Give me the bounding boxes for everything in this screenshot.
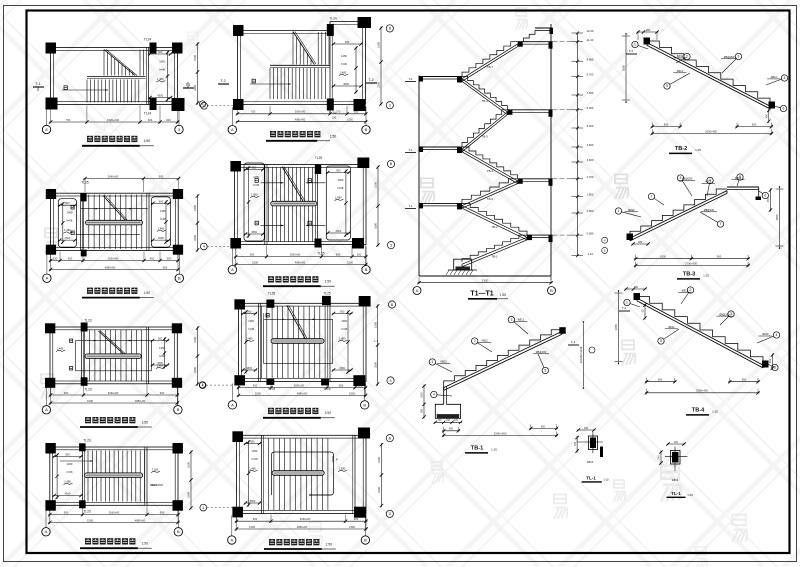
svg-text:B: B: [177, 407, 180, 412]
svg-text:900: 900: [345, 40, 350, 44]
svg-text:11.10: 11.10: [587, 38, 594, 42]
beam section detail 1: [574, 427, 603, 464]
svg-text:1: 1: [431, 360, 433, 364]
svg-text:1450: 1450: [67, 211, 73, 215]
svg-text:1500: 1500: [249, 525, 255, 529]
svg-text:1.800: 1.800: [587, 193, 594, 197]
detail TB-3 rebar callouts: [615, 174, 768, 227]
svg-text:1:50: 1:50: [141, 420, 148, 424]
plan 3 rail capsule: [85, 354, 141, 359]
svg-text:4500: 4500: [339, 366, 345, 370]
plan 5 walls: [238, 22, 366, 105]
svg-text:TB-7: TB-7: [487, 65, 494, 69]
svg-text:900: 900: [664, 123, 669, 127]
svg-text:4500: 4500: [250, 499, 256, 503]
svg-text:150: 150: [332, 116, 337, 120]
section floor slab level 3: [518, 179, 553, 186]
plan 2 stair treads: [84, 195, 142, 250]
svg-text:8Ø12: 8Ø12: [677, 54, 684, 58]
detail TB-4 label: [686, 408, 718, 415]
svg-text:TL25: TL25: [317, 252, 324, 256]
svg-text:900: 900: [658, 378, 663, 382]
svg-text:4: 4: [203, 104, 205, 108]
section title T1-T1: [468, 291, 508, 299]
plan 7 rail capsule: [271, 339, 324, 344]
detail TB-2 extra: [626, 28, 775, 123]
svg-text:900: 900: [250, 439, 255, 443]
svg-text:1:25: 1:25: [703, 274, 709, 278]
section flight 1: [462, 42, 518, 82]
svg-text:TL25: TL25: [268, 387, 275, 391]
plan 8 extra marks: [200, 435, 393, 518]
plan 3 columns: [45, 323, 182, 388]
plan 6 caption: [263, 276, 335, 286]
svg-text:1:50: 1:50: [324, 411, 331, 415]
svg-text:5.400: 5.400: [587, 124, 594, 128]
detail TB-3 height dimension: [775, 186, 784, 248]
svg-text:1.480: 1.480: [246, 336, 253, 340]
plan 2 columns: [46, 189, 183, 256]
svg-text:5: 5: [544, 369, 546, 373]
svg-text:3300+450: 3300+450: [696, 389, 709, 393]
plan 6 walls: [235, 165, 367, 245]
svg-text:h=08: h=08: [337, 186, 343, 190]
svg-text:280: 280: [638, 241, 643, 244]
svg-text:5: 5: [666, 84, 668, 88]
plan 6 axis bubbles: [228, 247, 370, 274]
plan 6 rail capsule: [271, 201, 317, 206]
section flight 6: [462, 203, 527, 240]
svg-text:3300+450: 3300+450: [705, 129, 718, 133]
svg-text:4.500: 4.500: [587, 143, 594, 147]
svg-text:B: B: [363, 402, 366, 407]
svg-text:3.600: 3.600: [587, 158, 594, 162]
detail TB-1 bottom dimensions: [442, 424, 558, 437]
detail TB-3 extra: [627, 187, 773, 246]
svg-text:1500: 1500: [87, 518, 93, 522]
svg-text:1650: 1650: [622, 64, 626, 71]
plan 8 left room detail: [244, 439, 261, 506]
svg-text:1500: 1500: [193, 55, 197, 61]
plan 4 stair treads: [88, 451, 145, 502]
svg-text:3300+450: 3300+450: [494, 431, 507, 435]
svg-text:2.700: 2.700: [587, 175, 594, 179]
section flight 2: [462, 77, 507, 115]
svg-text:1.480: 1.480: [340, 70, 347, 74]
svg-text:T-2: T-2: [368, 78, 373, 82]
svg-text:4880+80: 4880+80: [105, 265, 116, 269]
svg-text:3300: 3300: [187, 492, 191, 498]
svg-text:900: 900: [339, 384, 344, 388]
svg-text:TL25: TL25: [315, 156, 322, 160]
svg-text:TL23: TL23: [83, 510, 90, 514]
svg-text:TB-1: TB-1: [471, 446, 483, 452]
svg-text:-1.10: -1.10: [587, 252, 594, 256]
svg-text:1450: 1450: [248, 319, 254, 323]
svg-text:170: 170: [336, 110, 341, 114]
plan 1 direction arrows: [62, 86, 108, 91]
plan 3 bottom dimensions: [49, 385, 179, 405]
plan 6 direction arrows: [255, 179, 325, 227]
svg-text:B: B: [177, 529, 180, 534]
svg-text:Ø8@200: Ø8@200: [724, 55, 735, 59]
svg-text:T-1: T-1: [408, 148, 412, 152]
svg-text:1500: 1500: [377, 457, 381, 463]
section level extension lines: [553, 42, 573, 235]
svg-text:4500: 4500: [158, 236, 164, 240]
svg-text:4: 4: [202, 383, 204, 387]
svg-text:4880+80: 4880+80: [297, 525, 308, 529]
svg-text:T-2: T-2: [629, 49, 634, 53]
svg-text:3300: 3300: [377, 487, 381, 493]
svg-text:1050: 1050: [347, 118, 353, 122]
svg-text:4Ø12: 4Ø12: [518, 318, 525, 322]
svg-text:TB-4: TB-4: [482, 99, 489, 103]
plan 5 right room detail: [332, 40, 363, 94]
svg-text:h=08: h=08: [252, 457, 258, 461]
plan 6 columns: [230, 158, 369, 249]
plan 4 columns: [45, 443, 183, 511]
section T1-T1 right wall: [550, 24, 552, 283]
plan 5 break line: [293, 32, 316, 65]
svg-text:h=08: h=08: [160, 217, 166, 221]
svg-text:h=08: h=08: [67, 470, 73, 474]
svg-text:2Ø12: 2Ø12: [672, 478, 679, 482]
svg-text:1450: 1450: [67, 462, 73, 466]
detail TB-2 bottom dimensions: [651, 123, 774, 136]
plan 7 axis bubbles: [228, 384, 369, 410]
svg-text:3060+80: 3060+80: [295, 110, 306, 114]
plan 8 caption: [264, 539, 336, 549]
section detail marker circles: [602, 237, 608, 253]
plan 3 axis bubbles: [42, 386, 182, 414]
svg-text:4880+80: 4880+80: [135, 518, 146, 522]
svg-text:4500: 4500: [65, 491, 71, 495]
plan 8 stair treads: [269, 439, 328, 511]
svg-text:TL25: TL25: [323, 387, 330, 391]
plan 2 caption: [82, 288, 154, 298]
svg-text:6.300: 6.300: [587, 106, 594, 110]
section T1-T1 left wall: [418, 76, 420, 277]
svg-text:450: 450: [766, 113, 769, 118]
svg-text:1:50: 1:50: [500, 293, 506, 297]
svg-text:900: 900: [354, 517, 359, 521]
svg-text:7.180: 7.180: [339, 466, 346, 470]
section bottom dimension: [417, 277, 552, 284]
section ground and footing: [419, 259, 551, 276]
section cut tags left: [405, 77, 416, 209]
section flight 5: [462, 179, 518, 208]
svg-text:3060+80: 3060+80: [290, 253, 301, 257]
svg-text:1:50: 1:50: [330, 135, 337, 139]
svg-text:900: 900: [340, 309, 345, 313]
svg-text:TB-4: TB-4: [487, 169, 494, 173]
svg-text:4500: 4500: [157, 361, 163, 365]
svg-text:TB-1: TB-1: [491, 255, 498, 259]
plan 7 extra marks: [199, 292, 395, 392]
svg-text:1450: 1450: [338, 178, 344, 182]
svg-text:8Ø12: 8Ø12: [628, 208, 635, 212]
svg-text:900: 900: [742, 378, 747, 382]
svg-text:900: 900: [163, 265, 168, 269]
svg-text:3: 3: [390, 379, 392, 383]
svg-text:1520+200: 1520+200: [107, 118, 120, 122]
plan 1 right room detail: [148, 50, 172, 101]
svg-text:1500: 1500: [255, 391, 261, 395]
section flight 4: [462, 147, 518, 184]
plan 7 stair treads: [262, 307, 326, 379]
section axis bubble B: [548, 287, 556, 295]
detail TB-1 stair flight: [444, 330, 562, 391]
detail TB-2 stair flight: [647, 41, 770, 109]
svg-text:250: 250: [53, 256, 58, 260]
plan 1 caption: [82, 136, 154, 146]
svg-text:900: 900: [159, 174, 164, 178]
svg-text:1450: 1450: [341, 54, 347, 58]
svg-text:TB-2: TB-2: [491, 225, 498, 229]
svg-text:3300: 3300: [193, 85, 197, 91]
svg-text:3060+80: 3060+80: [109, 511, 120, 515]
svg-text:2: 2: [474, 339, 476, 343]
plan 6 stair treads: [269, 168, 313, 243]
svg-text:450: 450: [150, 256, 155, 260]
svg-text:12X262=3144: 12X262=3144: [579, 346, 583, 363]
svg-text:3300: 3300: [377, 82, 381, 88]
plan 2 right room detail: [151, 197, 171, 247]
svg-text:1.480: 1.480: [251, 192, 258, 196]
svg-text:900: 900: [253, 517, 258, 521]
svg-text:3300: 3300: [193, 367, 197, 373]
detail TB-2 rebar callouts: [632, 41, 788, 111]
svg-text:B: B: [365, 127, 368, 132]
svg-text:4Ø12: 4Ø12: [771, 75, 778, 79]
svg-text:900: 900: [250, 253, 255, 257]
plan 1 landing edge: [87, 77, 146, 79]
svg-text:1500: 1500: [193, 205, 197, 211]
plan 5 bottom dimensions: [236, 106, 368, 123]
svg-text:900: 900: [65, 201, 70, 205]
svg-text:450: 450: [769, 358, 772, 363]
svg-text:240: 240: [574, 441, 577, 446]
svg-text:1.480: 1.480: [335, 195, 342, 199]
svg-text:250: 250: [357, 253, 362, 257]
svg-text:2700+900: 2700+900: [685, 261, 698, 265]
plan 2 left room detail: [58, 199, 77, 247]
plan 5 axis bubbles: [228, 107, 370, 134]
svg-text:1800: 1800: [660, 255, 666, 259]
svg-text:900: 900: [158, 336, 163, 340]
svg-text:B: B: [178, 276, 181, 281]
plan 3 caption: [80, 417, 152, 427]
svg-text:100: 100: [674, 441, 679, 444]
detail TB-4 rebar callouts: [624, 287, 780, 371]
svg-text:TB-2: TB-2: [675, 146, 687, 152]
svg-text:250: 250: [358, 384, 363, 388]
svg-text:5: 5: [660, 339, 662, 343]
plan 7 columns: [234, 296, 370, 386]
svg-text:8Ø12: 8Ø12: [682, 289, 689, 293]
section flight 7: [462, 235, 527, 267]
svg-text:T-1: T-1: [408, 77, 412, 81]
svg-text:1500: 1500: [421, 392, 424, 398]
svg-text:1450: 1450: [160, 209, 166, 213]
svg-text:900: 900: [159, 199, 164, 203]
plan 4 left room detail: [52, 452, 82, 499]
svg-text:900: 900: [158, 50, 163, 54]
svg-text:100: 100: [584, 427, 589, 430]
svg-text:3300: 3300: [374, 223, 378, 229]
svg-text:450: 450: [541, 425, 546, 428]
svg-text:4: 4: [433, 393, 435, 397]
detail TB-4 height dimension: [614, 290, 623, 364]
svg-text:7.180: 7.180: [152, 467, 159, 471]
svg-text:1500: 1500: [187, 462, 191, 468]
svg-text:1:25: 1:25: [695, 148, 701, 152]
beam section detail 2: [658, 441, 688, 482]
svg-text:280: 280: [634, 286, 639, 289]
svg-text:1450: 1450: [159, 346, 165, 350]
svg-text:900: 900: [752, 123, 757, 127]
detail TB-1 rebar callouts: [429, 316, 549, 397]
svg-text:6: 6: [774, 366, 776, 370]
svg-text:A: A: [231, 267, 234, 272]
svg-text:4500: 4500: [157, 93, 163, 97]
svg-text:A: A: [231, 127, 234, 132]
detail TB-4 extra: [619, 286, 774, 370]
svg-text:Ø8@200: Ø8@200: [704, 208, 715, 212]
svg-text:3: 3: [730, 312, 732, 316]
svg-text:A: A: [230, 537, 233, 542]
svg-text:450: 450: [68, 256, 73, 260]
svg-text:B: B: [365, 267, 368, 272]
svg-text:900: 900: [354, 110, 359, 114]
plan 5 stair treads: [270, 32, 329, 99]
svg-text:1500: 1500: [252, 260, 258, 264]
svg-text:7: 7: [720, 222, 722, 226]
svg-text:TL23: TL23: [83, 439, 90, 443]
svg-text:900: 900: [160, 511, 165, 515]
svg-text:3640+80: 3640+80: [108, 174, 119, 178]
svg-text:6: 6: [783, 107, 785, 111]
svg-text:L-7: L-7: [374, 339, 378, 343]
detail TB-4 bottom dimensions: [645, 378, 760, 395]
svg-text:3: 3: [738, 55, 740, 59]
plan 4 bottom dimensions: [48, 506, 180, 524]
plan 5 columns: [233, 17, 371, 111]
svg-text:1.480: 1.480: [339, 336, 346, 340]
svg-text:T-2: T-2: [622, 306, 627, 310]
section landing level 2: [419, 147, 462, 153]
svg-text:4880+80: 4880+80: [135, 399, 146, 403]
section landing level 3: [419, 203, 462, 209]
plan 7 right room detail: [332, 309, 353, 373]
plan 4 walls: [50, 447, 178, 505]
plan 1 axis bubbles: [42, 107, 183, 134]
detail TB-4 stair flight: [637, 297, 763, 368]
svg-text:4: 4: [776, 333, 778, 337]
plan 8 axis bubbles: [228, 516, 370, 545]
plan 4 rail capsule: [84, 473, 142, 478]
plan 3 break line: [98, 331, 127, 355]
svg-text:Ø8@200: Ø8@200: [719, 312, 730, 316]
svg-text:1500: 1500: [87, 399, 93, 403]
svg-text:A: A: [45, 407, 48, 412]
svg-text:4880+80: 4880+80: [295, 260, 306, 264]
svg-text:3: 3: [510, 318, 512, 322]
plan 6 extra marks: [200, 156, 394, 256]
svg-text:3300: 3300: [373, 362, 377, 368]
plan 7 left room detail: [241, 309, 257, 373]
svg-text:A: A: [416, 288, 419, 293]
plan 8 bottom dimensions: [235, 515, 368, 531]
beam section detail 1 label: [582, 476, 610, 482]
plan 2 rail capsule: [86, 220, 143, 225]
svg-text:1:50: 1:50: [324, 280, 331, 284]
plan 2 break line: [103, 196, 128, 222]
svg-text:2: 2: [690, 288, 692, 292]
plan 3 stair treads: [85, 330, 142, 381]
svg-text:3060+80: 3060+80: [294, 384, 305, 388]
svg-text:1:25: 1:25: [491, 448, 497, 452]
svg-text:Ø8@200: Ø8@200: [682, 177, 693, 181]
svg-text:1.480: 1.480: [158, 226, 165, 230]
svg-text:0.900: 0.900: [587, 209, 594, 213]
svg-text:F: F: [336, 458, 338, 462]
svg-text:6: 6: [764, 194, 766, 198]
svg-text:TL24: TL24: [144, 38, 151, 42]
svg-text:A: A: [45, 529, 48, 534]
section axis bubble A: [413, 287, 421, 295]
svg-text:0.000: 0.000: [587, 231, 594, 235]
svg-text:TB-3: TB-3: [683, 272, 695, 278]
svg-text:280: 280: [646, 28, 651, 32]
svg-text:T-1: T-1: [571, 340, 576, 344]
svg-text:3: 3: [390, 243, 392, 247]
svg-text:750: 750: [66, 118, 71, 122]
section elevation dimension string: [572, 29, 594, 257]
svg-text:4880+80: 4880+80: [297, 391, 308, 395]
svg-text:TL23: TL23: [84, 388, 91, 392]
svg-text:T-1: T-1: [408, 204, 412, 208]
svg-text:9.900: 9.900: [587, 57, 594, 61]
svg-text:A: A: [231, 402, 234, 407]
plan 1 bottom dimensions: [49, 106, 179, 124]
plan 5 landing edge: [270, 65, 330, 67]
svg-text:1:50: 1:50: [143, 291, 150, 295]
svg-text:4500: 4500: [65, 236, 71, 240]
section flight 3: [462, 110, 507, 152]
svg-text:2: 2: [651, 195, 653, 199]
svg-text:900: 900: [717, 255, 722, 259]
svg-text:8Ø12: 8Ø12: [440, 360, 447, 364]
svg-text:h=08: h=08: [159, 354, 165, 358]
svg-text:3060+80: 3060+80: [108, 256, 119, 260]
svg-text:h=08: h=08: [66, 219, 72, 223]
svg-text:900: 900: [64, 511, 69, 515]
svg-text:450: 450: [449, 428, 454, 431]
svg-text:3: 3: [389, 512, 391, 516]
svg-text:T1—T1: T1—T1: [470, 291, 493, 298]
svg-text:900: 900: [253, 384, 258, 388]
plan 6 break line: [282, 167, 305, 202]
svg-text:TL24: TL24: [328, 111, 335, 115]
svg-text:8.700: 8.700: [587, 73, 594, 77]
plan 7 caption: [263, 408, 335, 418]
svg-text:3060+80: 3060+80: [300, 517, 311, 521]
svg-text:4Ø12: 4Ø12: [735, 176, 742, 180]
svg-text:500: 500: [421, 408, 424, 413]
plan 5 caption: [266, 131, 336, 141]
